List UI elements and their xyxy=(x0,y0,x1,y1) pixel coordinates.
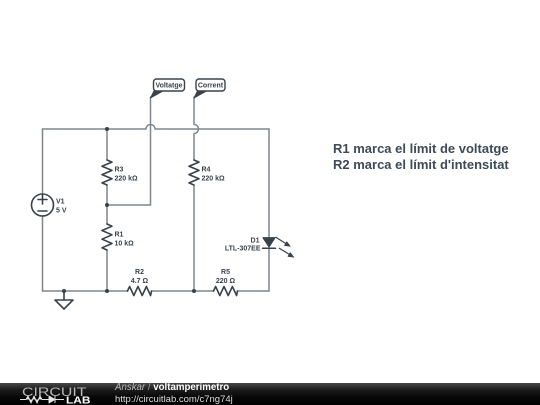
junction R3-R1 / Voltatge node xyxy=(105,203,109,207)
wire left branch lower xyxy=(42,216,44,291)
svg-text:4.7 Ω: 4.7 Ω xyxy=(131,278,149,285)
LED D1 xyxy=(263,238,275,247)
svg-text:R4: R4 xyxy=(202,167,211,174)
wire bottom rail xyxy=(43,290,270,292)
resistor R4 xyxy=(189,160,199,185)
resistor R2 xyxy=(128,287,152,296)
wire R3-R1 branch xyxy=(106,129,108,291)
svg-text:220 Ω: 220 Ω xyxy=(216,278,236,285)
svg-text:R5: R5 xyxy=(221,269,230,276)
footer bar xyxy=(0,383,540,405)
wire left branch upper xyxy=(42,129,44,194)
wire right branch xyxy=(268,129,270,291)
junction ground tap xyxy=(62,289,66,293)
junction R4 / bottom rail xyxy=(192,289,196,293)
annotation text xyxy=(333,141,509,174)
svg-text:R2: R2 xyxy=(135,269,144,276)
svg-text:LAB: LAB xyxy=(66,395,91,405)
svg-text:R1: R1 xyxy=(115,232,124,239)
svg-text:220 kΩ: 220 kΩ xyxy=(202,176,226,183)
svg-text:Voltatge: Voltatge xyxy=(155,83,182,90)
wire Voltatge net xyxy=(107,97,151,205)
ground xyxy=(55,291,73,309)
resistor R1 xyxy=(102,224,112,250)
resistor R5 xyxy=(214,287,238,296)
svg-text:D1: D1 xyxy=(251,238,260,245)
flag Corrent xyxy=(194,91,207,98)
svg-text:V1: V1 xyxy=(56,199,65,206)
svg-text:220 kΩ: 220 kΩ xyxy=(115,176,139,183)
CircuitLab logo xyxy=(0,383,110,405)
junction R1 / bottom rail xyxy=(105,289,109,293)
svg-text:10 kΩ: 10 kΩ xyxy=(115,241,135,248)
junction top rail / R3 xyxy=(105,127,109,131)
svg-text:Corrent: Corrent xyxy=(198,83,224,90)
svg-text:R3: R3 xyxy=(115,167,124,174)
flag Voltatge xyxy=(151,91,164,98)
svg-text:LTL-307EE: LTL-307EE xyxy=(225,246,261,253)
wire top rail with hops xyxy=(43,125,270,130)
voltage source V1 xyxy=(32,194,54,216)
resistor R3 xyxy=(102,160,112,185)
wire Corrent net xyxy=(194,97,199,291)
svg-text:5 V: 5 V xyxy=(56,208,67,215)
